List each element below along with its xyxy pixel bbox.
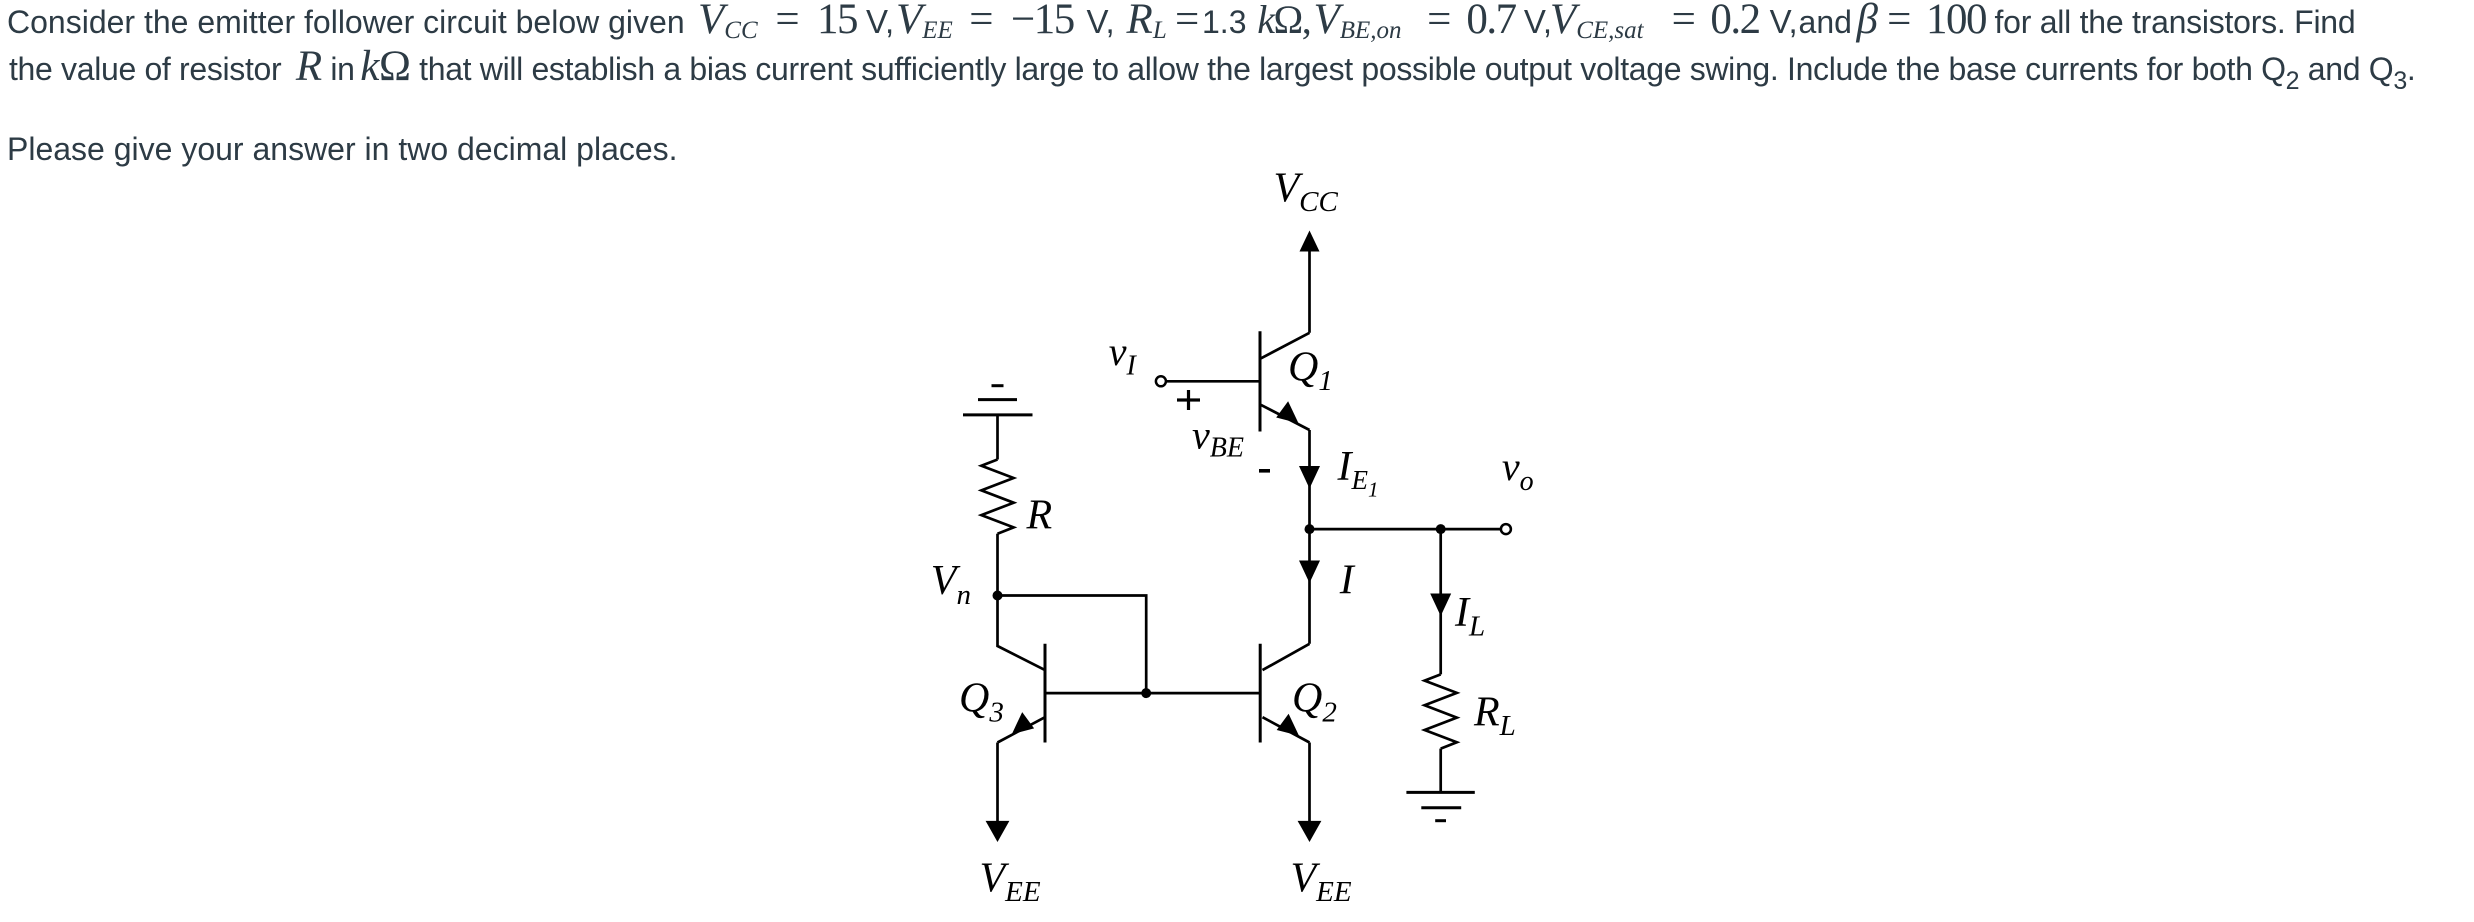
svg-text:I: I <box>1339 558 1356 604</box>
svg-text:IE1: IE1 <box>1337 444 1379 502</box>
label minus sign <box>1259 469 1270 473</box>
transistor Q3 emitter wire <box>998 717 1046 742</box>
svg-text:vo: vo <box>1502 444 1534 497</box>
svg-text:Q1: Q1 <box>1288 344 1333 397</box>
transistor Q1 emitter wire <box>1261 405 1310 430</box>
node dot base rail <box>1141 688 1151 698</box>
svg-text:Q3: Q3 <box>959 676 1004 729</box>
transistor Q1 base bar <box>1259 331 1262 431</box>
svg-text:R: R <box>1026 492 1053 538</box>
svg-text:vBE: vBE <box>1192 412 1244 463</box>
wire ground to resistor R <box>996 415 999 460</box>
svg-text:VEE: VEE <box>1291 855 1352 908</box>
current arrow IE1 <box>1299 466 1320 489</box>
Q3 emitter arrowhead <box>1012 712 1034 734</box>
svg-text:VCC: VCC <box>1274 165 1339 218</box>
paragraph line 3 <box>7 126 678 173</box>
current arrow I <box>1299 561 1320 584</box>
wire base Q1 <box>1166 380 1258 383</box>
transistor Q2 base bar <box>1259 644 1262 743</box>
transistor Q3 collector wire <box>998 596 1046 671</box>
wire vo node down to RL <box>1439 529 1442 674</box>
Q1 emitter arrowhead <box>1276 401 1298 423</box>
VEE arrowhead right <box>1298 821 1322 842</box>
resistor RL zigzag <box>1425 674 1457 748</box>
VCC arrowhead <box>1300 231 1320 252</box>
wire output node to vo terminal <box>1310 528 1501 531</box>
current arrow IL <box>1430 594 1451 617</box>
Q2 emitter arrowhead <box>1277 714 1299 736</box>
transistor Q2 collector wire <box>1263 644 1310 670</box>
paragraph line 2 <box>9 43 2415 105</box>
resistor R zigzag <box>981 460 1013 534</box>
node dot Vn <box>993 591 1003 601</box>
transistor Q1 collector wire <box>1261 333 1310 359</box>
wire RL to ground <box>1439 749 1442 793</box>
transistor Q2 emitter wire <box>1263 717 1310 742</box>
svg-text:VEE: VEE <box>980 855 1041 908</box>
terminal circle vo <box>1501 524 1511 534</box>
wire Q2 emitter to VEE <box>1308 743 1311 824</box>
label plus sign <box>1177 390 1200 410</box>
svg-text:RL: RL <box>1473 690 1516 743</box>
node dot RL tap <box>1436 524 1446 534</box>
paragraph line 1 <box>7 0 2355 54</box>
wire Vn node to base rail <box>998 596 1147 694</box>
wire node to Q2 collector <box>1308 529 1311 644</box>
node dot output <box>1305 524 1315 534</box>
wire resistor R to Vn node <box>996 534 999 596</box>
svg-text:IL: IL <box>1454 590 1485 643</box>
svg-text:Q2: Q2 <box>1292 676 1337 729</box>
terminal circle vI <box>1156 376 1166 386</box>
svg-text:Vn: Vn <box>931 558 971 611</box>
VEE arrowhead left <box>986 821 1010 842</box>
transistor Q3 base bar <box>1044 644 1047 743</box>
wire Q3 emitter to VEE <box>996 743 999 824</box>
svg-text:vI: vI <box>1109 329 1138 382</box>
wire emitter Q1 down to output node <box>1308 430 1311 529</box>
wire VCC supply vertical <box>1308 250 1311 333</box>
wire base rail Q3-Q2 <box>1045 692 1260 695</box>
ground symbol inverted above R <box>992 384 1004 387</box>
ground symbol below RL <box>1406 791 1474 794</box>
